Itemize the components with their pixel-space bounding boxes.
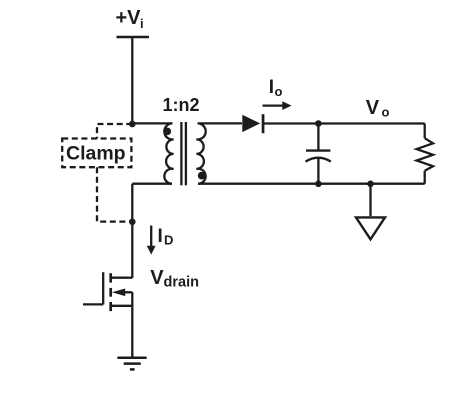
svg-text:o: o — [275, 84, 283, 99]
svg-text:Clamp: Clamp — [66, 143, 126, 165]
svg-text:+V: +V — [116, 7, 142, 29]
svg-text:1:n2: 1:n2 — [163, 95, 200, 115]
svg-text:I: I — [269, 77, 274, 98]
svg-text:o: o — [382, 104, 390, 119]
svg-text:I: I — [158, 226, 163, 247]
svg-text:V: V — [366, 97, 380, 119]
svg-text:V: V — [150, 267, 164, 289]
svg-text:drain: drain — [164, 274, 199, 290]
svg-text:D: D — [164, 232, 173, 247]
svg-text:i: i — [140, 16, 144, 31]
